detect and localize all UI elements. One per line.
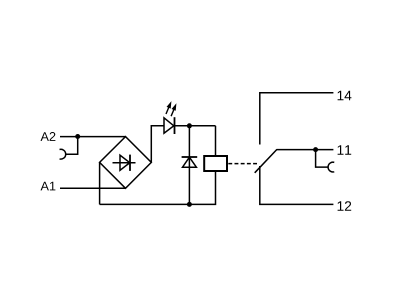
terminal label 12 <box>338 201 352 211</box>
switch blade changeover contact <box>255 150 334 173</box>
socket contact A2 <box>60 149 66 159</box>
terminal label 11 <box>338 145 352 155</box>
junction dot 11 <box>313 147 318 152</box>
flyback diode D2 <box>182 157 198 167</box>
wire DC plus from bridge right corner to LED <box>151 126 164 163</box>
wire flyback branch <box>188 126 190 205</box>
LED D1 <box>164 117 175 134</box>
wire A2 to bridge top corner <box>60 136 126 138</box>
relay coil K1 <box>204 156 227 171</box>
mechanical link dashed <box>228 163 257 165</box>
socket contact 11 <box>328 162 334 172</box>
terminal label A1 <box>41 182 56 191</box>
wire A1 to bridge bottom corner <box>60 187 126 189</box>
junction dot bottom rail <box>187 202 192 207</box>
junction dot LED output <box>187 123 192 128</box>
wire A2 socket branch <box>66 137 78 155</box>
wire contact 14 <box>260 93 334 145</box>
wire 11 socket branch <box>316 150 329 168</box>
terminal label A2 <box>41 132 56 141</box>
wire coil top <box>215 126 217 156</box>
wire DC minus from bridge left corner <box>99 162 101 204</box>
junction dot A2 <box>75 134 80 139</box>
terminal label 14 <box>338 91 352 101</box>
LED light emission arrows <box>166 103 176 116</box>
wire bottom rail <box>100 171 216 204</box>
bridge internal diode <box>113 155 136 171</box>
wire contact 12 <box>260 166 334 204</box>
bridge rectifier diamond <box>100 137 152 189</box>
wire LED cathode to coil branch <box>175 125 216 127</box>
